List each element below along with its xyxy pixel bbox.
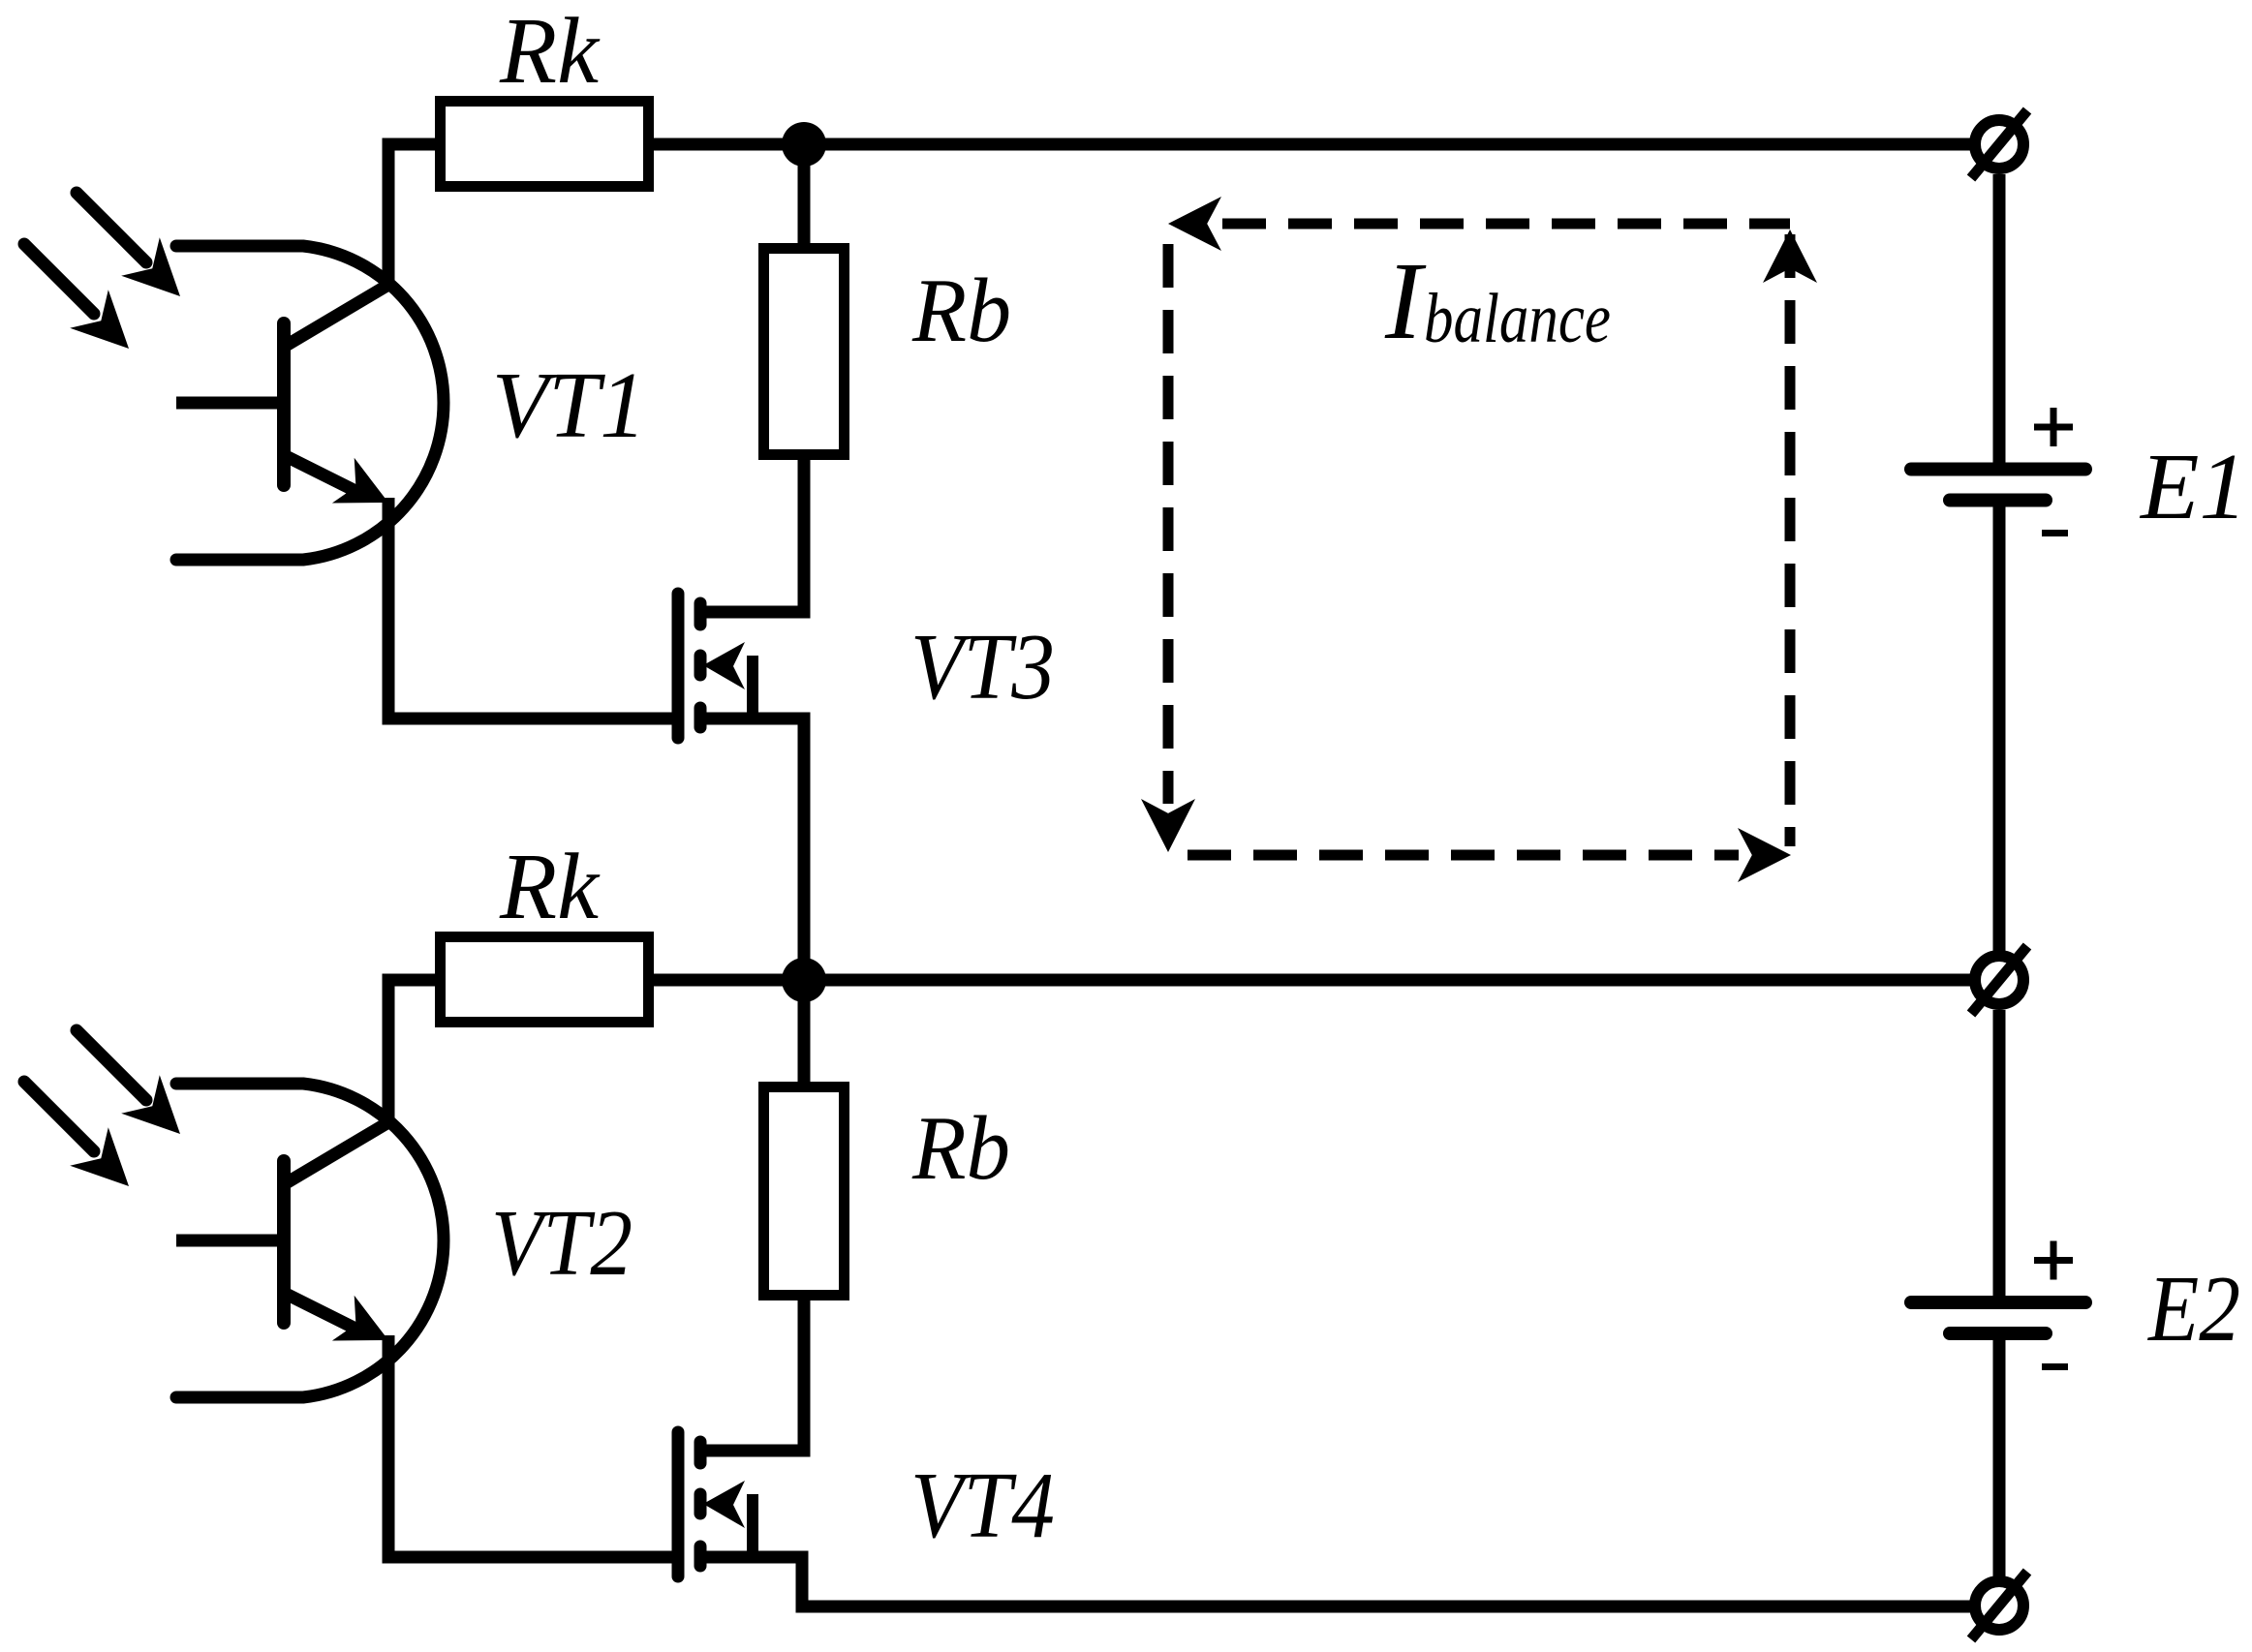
wire: E2 to bottom terminal xyxy=(1993,1340,2006,1576)
svg-text:E1: E1 xyxy=(2139,435,2247,538)
node: top junction xyxy=(782,122,826,167)
wire: VT2 emitter down and over to VT4 gate xyxy=(388,1335,672,1557)
svg-text:VT3: VT3 xyxy=(910,615,1055,719)
svg-text:VT1: VT1 xyxy=(492,353,646,457)
arrowheads: balance current direction xyxy=(1141,197,1817,882)
wire: junction down to Rb1 xyxy=(798,150,811,250)
wire: Rk1 left lead down to VT1 collector xyxy=(388,144,441,291)
transistor VT2 (phototransistor) xyxy=(24,1030,632,1397)
wire: VT1 emitter down and over to VT3 gate xyxy=(388,498,672,719)
wire: top terminal to E1 xyxy=(1993,174,2006,463)
svg-text:I: I xyxy=(1384,239,1427,362)
wire: Rb2 bottom to VT4 drain xyxy=(704,1294,804,1451)
wire: dashed balance-current loop xyxy=(1168,224,1790,855)
terminal: top xyxy=(1971,110,2027,178)
wire: Rb1 bottom to VT3 drain xyxy=(704,453,804,612)
battery E2 xyxy=(1911,1241,2240,1367)
wire: middle junction down to Rb2 xyxy=(798,986,811,1088)
svg-text:VT2: VT2 xyxy=(491,1191,632,1295)
svg-text:E2: E2 xyxy=(2146,1257,2240,1361)
svg-text:VT4: VT4 xyxy=(910,1453,1055,1557)
wire: middle terminal to E2 xyxy=(1993,1010,2006,1296)
transistor VT4 (MOSFET) xyxy=(678,1432,1055,1576)
resistor Rb2 xyxy=(764,1087,1011,1296)
terminal: middle xyxy=(1971,946,2027,1014)
resistor Rk1 xyxy=(441,0,649,187)
wire: VT3 source down to middle junction xyxy=(704,719,804,980)
svg-text:Rk: Rk xyxy=(499,0,601,103)
node: middle junction xyxy=(782,958,826,1002)
wire: VT4 source down and to bottom terminal xyxy=(704,1557,1972,1606)
svg-text:balance: balance xyxy=(1424,279,1611,357)
resistor Rk2 xyxy=(441,835,649,1023)
transistor VT1 (phototransistor) xyxy=(24,193,646,560)
wire: middle bus from Rk2 to middle terminal xyxy=(648,974,1972,987)
wire: E1 to middle terminal xyxy=(1993,506,2006,952)
svg-text:Rk: Rk xyxy=(499,835,601,938)
label: I_balance xyxy=(1384,239,1611,362)
battery E1 xyxy=(1911,408,2247,538)
wire: top bus from Rk1 to terminal xyxy=(648,138,1972,151)
svg-text:Rb: Rb xyxy=(911,1098,1010,1199)
resistor Rb1 xyxy=(764,249,1012,455)
svg-text:Rb: Rb xyxy=(911,260,1011,361)
transistor VT3 (MOSFET) xyxy=(678,594,1055,738)
terminal: bottom xyxy=(1971,1572,2027,1639)
wire: Rk2 left lead down to VT2 collector xyxy=(388,980,441,1128)
